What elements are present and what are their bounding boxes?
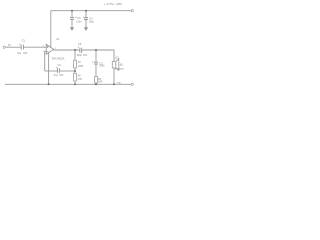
svg-text:C3: C3 [77,16,81,20]
svg-text:GND: GND [117,82,122,84]
svg-text:R2: R2 [78,75,82,77]
svg-text:C1: C1 [22,39,26,43]
wire R3 to ground rail [95,83,97,84]
loudspeaker LS1 [112,59,119,71]
svg-text:C6: C6 [78,42,82,46]
svg-text:8Ω: 8Ω [120,65,123,67]
node ground rail / op-amp gnd [48,83,50,85]
resistor R1 [74,60,77,68]
C6 polarity plus [78,46,79,47]
svg-text:16V: 16V [23,53,28,55]
ground (arrow) below C4 [84,27,88,31]
wire R1 to node [74,68,76,73]
svg-text:10µ: 10µ [17,53,22,55]
capacitor C5 (zobel) [94,62,98,64]
C5 polarity plus [92,61,93,62]
svg-text:IN: IN [8,43,11,47]
capacitor C2 (feedback, polarized) [58,68,60,73]
svg-text:16V: 16V [83,55,88,57]
node op-amp output / R1 junction [74,49,76,51]
wire C3 branch from rail [71,11,73,18]
svg-text:+ 4.5V...18V: + 4.5V...18V [104,2,123,6]
wire op-amp output to C6 [53,49,79,51]
svg-text:47R: 47R [78,79,83,81]
op-amp minus mark [47,50,49,52]
svg-text:U1: U1 [56,37,60,41]
wire top rail V+ [51,10,131,12]
node rail / C3 junction [71,10,73,12]
wire speaker to ground rail [113,68,115,84]
capacitor C6 (output, polarized) [80,48,82,53]
svg-text:SPEAKER: SPEAKER [115,68,125,71]
svg-text:C4: C4 [89,16,93,20]
wire input from terminal to C1 [5,46,20,48]
node ground rail / speaker [113,83,115,85]
svg-text:TDA7052A: TDA7052A [51,57,64,61]
op-amp plus mark [47,46,49,48]
node ground rail / R3 [95,83,97,85]
svg-text:10R: 10R [98,81,103,83]
C1 polarity plus [19,44,20,45]
wire C3 to ground arrow [71,20,73,28]
capacitor C1 (input, polarized) [21,45,23,50]
svg-text:47µ: 47µ [54,75,59,77]
wire R2 to ground rail [74,81,76,84]
C3 polarity plus [75,17,76,18]
terminal V+ right [131,10,133,12]
op-amp U1 [46,44,53,54]
svg-text:C5: C5 [99,61,103,65]
node ground rail / R2 [74,83,76,85]
capacitor C3 (supply decoupling) [70,18,74,20]
C2 polarity plus [56,67,57,68]
terminal IN [3,46,5,48]
svg-text:100n: 100n [76,22,82,24]
wire feedback left segment to C2 [45,70,57,72]
node output / zobel junction [95,49,97,51]
svg-text:R1: R1 [78,62,82,64]
svg-text:LS1: LS1 [115,58,120,60]
wire C5 to R3 [95,65,97,77]
wire C4 to ground arrow [85,20,87,28]
svg-text:100µ: 100µ [89,22,95,24]
wire C1 to op-amp non-inverting input [24,46,47,48]
ground (arrow) below C3 [70,27,74,31]
svg-text:16V: 16V [59,75,64,77]
wire C2 to node R1/R2 [60,70,75,72]
node feedback / R1-R2 junction [74,70,76,72]
svg-text:5: 5 [55,48,56,50]
svg-text:100n: 100n [99,66,105,68]
svg-text:100µ: 100µ [77,55,83,57]
svg-text:C2: C2 [58,63,62,67]
resistor R3 [95,77,98,84]
svg-text:100R: 100R [78,66,84,68]
resistor R2 [74,73,77,81]
wire C6 to speaker corner [82,50,114,61]
wire zobel branch down from output [95,50,97,62]
C4 polarity plus [83,17,84,18]
capacitor C4 (supply reservoir, polarized) [84,18,88,20]
wire op-amp GND pin to ground rail [48,53,50,85]
wire C4 branch from rail [85,11,87,18]
terminal GND right [131,83,133,85]
wire bottom ground rail [5,83,131,85]
node rail / C4 junction [85,10,87,12]
wire output node down to R1 [74,50,76,60]
wire inverting input stub and vertical down [45,51,47,71]
wire op-amp V+ pin vertical [50,11,52,48]
